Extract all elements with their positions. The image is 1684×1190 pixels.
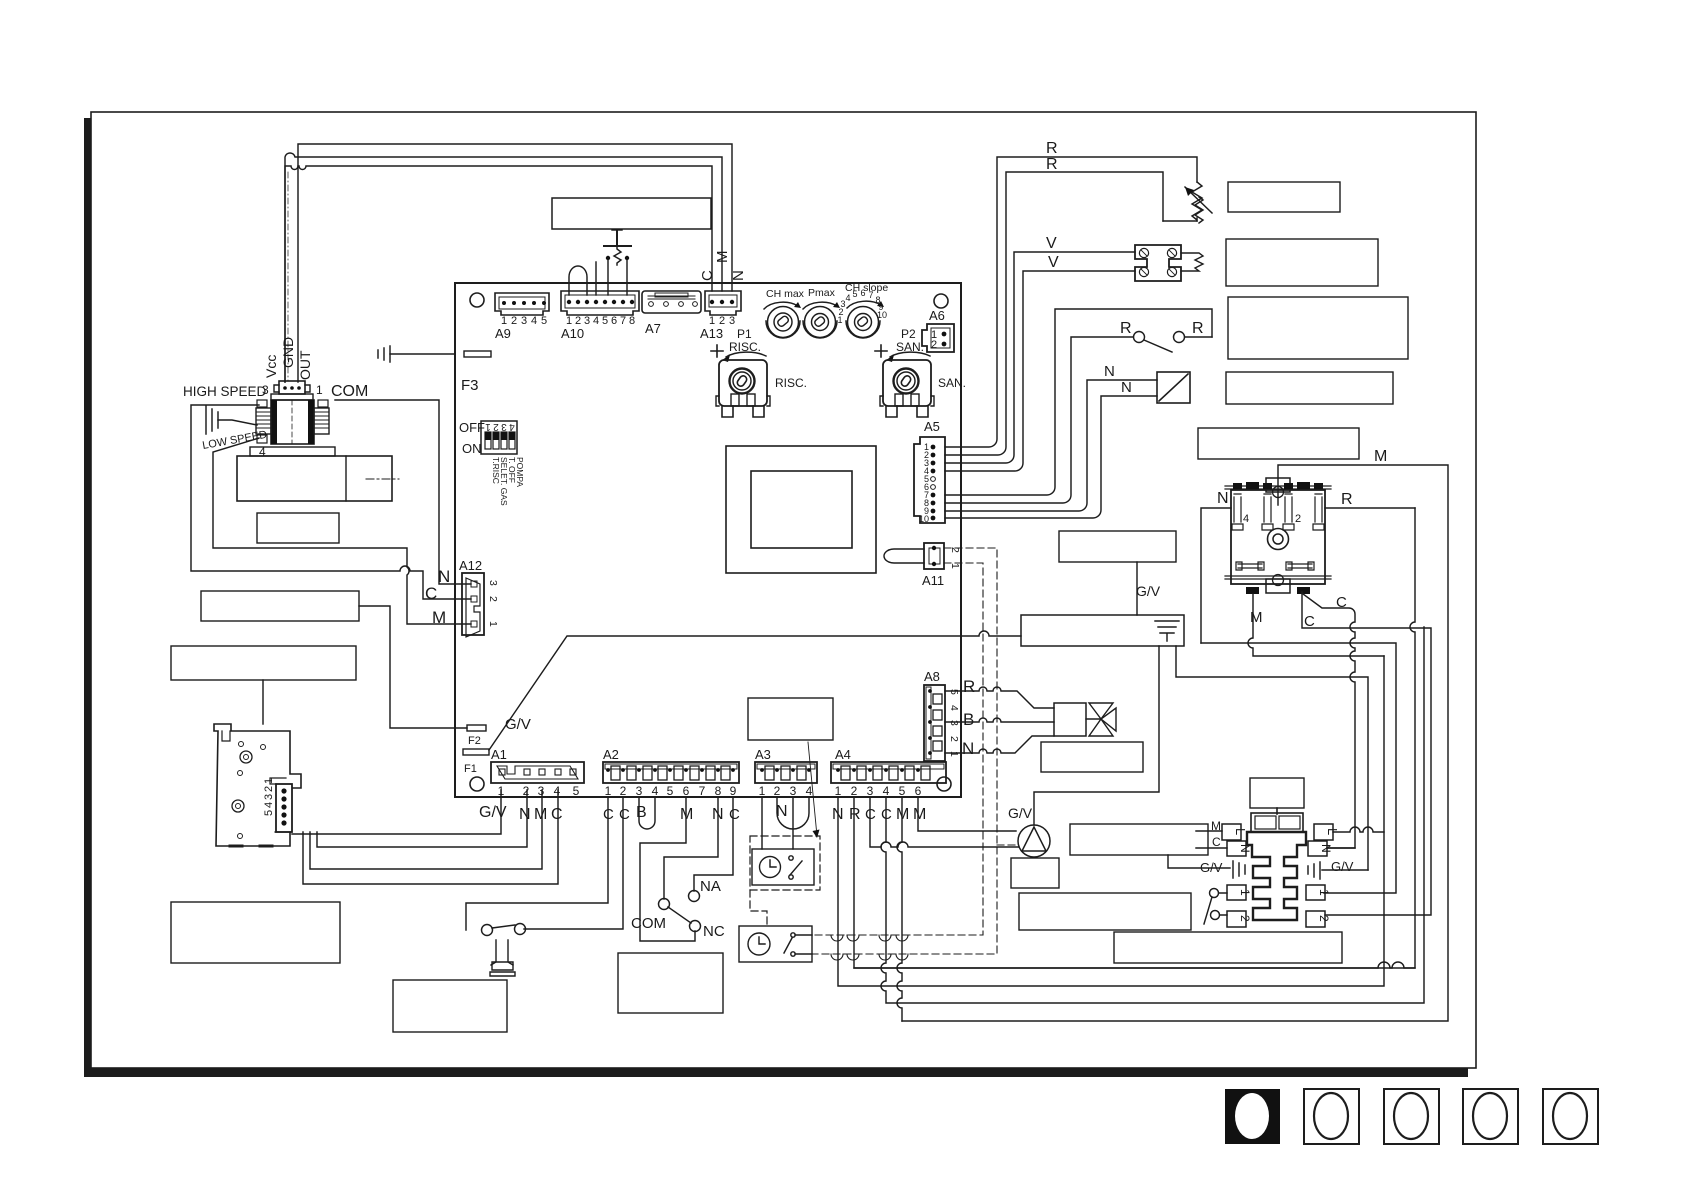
svg-text:4: 4 bbox=[883, 784, 890, 798]
svg-text:2: 2 bbox=[523, 784, 530, 798]
svg-text:4: 4 bbox=[652, 784, 659, 798]
svg-text:C: C bbox=[1212, 835, 1221, 849]
wire right N to C1 riser bbox=[1327, 847, 1355, 849]
label box above timers bbox=[748, 698, 833, 740]
switch COM NA NC bbox=[631, 878, 725, 940]
svg-text:A8: A8 bbox=[924, 669, 940, 684]
wire right L to riser bbox=[1333, 827, 1384, 832]
svg-text:C: C bbox=[619, 806, 630, 823]
svg-text:V: V bbox=[1048, 254, 1059, 271]
svg-text:4: 4 bbox=[259, 445, 266, 459]
PCB board outline bbox=[455, 283, 961, 797]
page shadow left bar bbox=[84, 118, 91, 1077]
svg-text:6: 6 bbox=[915, 784, 922, 798]
connector A12 bbox=[459, 558, 499, 637]
svg-text:3: 3 bbox=[538, 784, 545, 798]
label box under valve motor bbox=[1041, 742, 1143, 772]
wire from F1 diagonal to long run right bbox=[489, 631, 1021, 750]
svg-text:5: 5 bbox=[667, 784, 674, 798]
svg-text:P2: P2 bbox=[901, 327, 916, 341]
PCB screw hole bottom-left bbox=[470, 777, 484, 791]
svg-text:2: 2 bbox=[851, 784, 858, 798]
svg-text:1: 1 bbox=[1317, 889, 1331, 896]
gas valve 5-pin connector bbox=[263, 778, 292, 832]
fan motor body bbox=[271, 172, 314, 444]
wire C from A13 pin1 up and left to fan bbox=[285, 166, 712, 382]
label box bottom-left bbox=[171, 902, 340, 963]
wire N from A12 pin3 to fan COM bbox=[335, 400, 471, 584]
connector A7 bbox=[642, 291, 701, 313]
2 box left bbox=[1227, 911, 1252, 927]
connector A3 bbox=[755, 747, 817, 798]
svg-text:C: C bbox=[1304, 613, 1315, 630]
svg-text:2: 2 bbox=[1295, 513, 1301, 525]
svg-text:2: 2 bbox=[620, 784, 627, 798]
A5 pin2 wire (R) bbox=[945, 172, 1163, 455]
A5 pin7 wire to thermostat R-R bbox=[945, 309, 1212, 495]
N box right bbox=[1308, 841, 1333, 856]
L box right bbox=[1314, 824, 1340, 840]
svg-text:1: 1 bbox=[759, 784, 766, 798]
svg-text:3: 3 bbox=[790, 784, 797, 798]
timer 2 (clock + switch) bbox=[739, 926, 812, 962]
svg-text:5: 5 bbox=[602, 315, 608, 327]
wire gas valve to A1 pin2 bbox=[317, 790, 527, 847]
A5 pin10 wire to relay (N) bbox=[945, 396, 1157, 518]
wire N from A13 pin3 up and left to fan bbox=[298, 144, 732, 382]
svg-text:N: N bbox=[1121, 379, 1132, 396]
svg-text:2: 2 bbox=[931, 339, 937, 351]
left ground G/V bbox=[1168, 855, 1245, 878]
svg-text:NA: NA bbox=[700, 878, 721, 895]
wire control box to right ground bbox=[1176, 646, 1368, 870]
svg-text:2: 2 bbox=[487, 596, 499, 602]
potentiometer CH slope with scale bbox=[837, 282, 888, 338]
svg-text:3: 3 bbox=[729, 315, 735, 327]
wire A4 pin3 C to pump bbox=[870, 797, 1019, 847]
svg-text:M: M bbox=[534, 806, 547, 823]
fuse F2 bbox=[467, 725, 486, 731]
1 box right bbox=[1306, 885, 1331, 900]
svg-text:5: 5 bbox=[948, 689, 960, 695]
wire A4 pin2 R to bottom run bbox=[854, 508, 1415, 968]
svg-text:4: 4 bbox=[948, 705, 960, 711]
svg-text:4: 4 bbox=[531, 315, 537, 327]
svg-text:A10: A10 bbox=[561, 326, 584, 341]
wire A3 pin1 into timer1 bbox=[761, 797, 763, 849]
wire M from A13 pin2 up and left to fan bbox=[285, 153, 722, 382]
flow switch contacts bbox=[482, 924, 526, 936]
svg-text:N: N bbox=[1104, 363, 1115, 380]
resistor at V block bbox=[1181, 253, 1203, 271]
svg-text:4: 4 bbox=[263, 802, 275, 808]
svg-text:R: R bbox=[1341, 491, 1353, 508]
bottom long wire to A4 pin4 riser bbox=[854, 962, 1415, 968]
svg-text:A4: A4 bbox=[835, 747, 851, 762]
svg-text:Pmax: Pmax bbox=[808, 287, 836, 299]
label box top center bbox=[552, 198, 711, 229]
A5 pin8 wire to thermostat bbox=[945, 337, 1133, 503]
svg-text:NC: NC bbox=[703, 923, 725, 940]
svg-text:2: 2 bbox=[1317, 915, 1331, 922]
page frame bbox=[91, 112, 1476, 1068]
svg-text:R: R bbox=[1120, 320, 1132, 337]
A8 wire B to valve motor bbox=[945, 718, 1054, 722]
svg-text:COM: COM bbox=[331, 383, 368, 400]
transformer bbox=[726, 446, 876, 573]
wire C from A12 pin2 via HIGH SPEED run bbox=[191, 405, 471, 599]
fan sensor connector bbox=[271, 381, 313, 400]
dashed wires from A11 to timer2 bbox=[812, 548, 1019, 954]
svg-text:2: 2 bbox=[1238, 915, 1252, 922]
label box left of A12 bbox=[201, 591, 359, 621]
svg-text:A9: A9 bbox=[495, 326, 511, 341]
control box with ground bbox=[1021, 615, 1184, 646]
svg-text:2: 2 bbox=[263, 786, 275, 792]
lamp and connector A11 bbox=[884, 543, 961, 588]
leader line from label box to timer1 bbox=[808, 742, 817, 836]
page marker 4 bbox=[1463, 1089, 1518, 1144]
svg-text:R: R bbox=[963, 677, 975, 696]
svg-text:A7: A7 bbox=[645, 321, 661, 336]
svg-text:N: N bbox=[1238, 844, 1252, 853]
svg-text:5: 5 bbox=[899, 784, 906, 798]
label box upper-left of gas valve bbox=[171, 646, 356, 680]
svg-text:4: 4 bbox=[806, 784, 813, 798]
wire from label box to F2 bbox=[359, 606, 467, 728]
wire M from A12 pin1 via LOW SPEED run bbox=[213, 438, 471, 624]
svg-text:A6: A6 bbox=[929, 308, 945, 323]
label box 4 (relay) bbox=[1226, 372, 1393, 404]
svg-text:3: 3 bbox=[948, 720, 960, 726]
svg-text:1: 1 bbox=[485, 421, 491, 432]
svg-text:F1: F1 bbox=[464, 763, 477, 775]
svg-text:4: 4 bbox=[845, 293, 850, 303]
svg-text:6: 6 bbox=[611, 315, 617, 327]
fan base plate with 4 bbox=[250, 447, 335, 456]
jumper loop A3 pins 2-4 bbox=[777, 797, 809, 829]
jumper loop A2 pins 3-4 bbox=[639, 797, 655, 829]
svg-text:G/V: G/V bbox=[1331, 859, 1354, 874]
svg-text:N: N bbox=[438, 567, 450, 586]
fuse F3 bbox=[378, 346, 491, 394]
connector A13 bbox=[705, 291, 741, 315]
svg-text:N: N bbox=[730, 270, 747, 281]
svg-text:C: C bbox=[551, 806, 563, 823]
wire A2 pin2 to flow switch bbox=[524, 797, 623, 929]
svg-text:3: 3 bbox=[521, 315, 527, 327]
label box 2 (V block) bbox=[1226, 239, 1378, 286]
svg-text:G/V: G/V bbox=[1136, 583, 1161, 599]
pressure sensor symbol below flow switch bbox=[490, 940, 515, 976]
svg-text:3: 3 bbox=[501, 421, 507, 432]
pump unit (hydraulic block) right side bbox=[1225, 478, 1331, 594]
svg-text:5: 5 bbox=[541, 315, 547, 327]
wire A3 pin3 into timer1 bbox=[792, 797, 794, 849]
svg-text:1: 1 bbox=[1238, 889, 1252, 896]
svg-text:5: 5 bbox=[852, 289, 857, 299]
connector A1 bbox=[491, 747, 584, 798]
label box 5 bbox=[1198, 428, 1359, 459]
svg-text:HIGH SPEED: HIGH SPEED bbox=[183, 384, 267, 399]
svg-text:3: 3 bbox=[867, 784, 874, 798]
svg-text:B: B bbox=[636, 804, 647, 821]
svg-text:P1: P1 bbox=[737, 327, 752, 341]
svg-text:OUT: OUT bbox=[297, 350, 313, 380]
svg-text:R: R bbox=[1046, 140, 1058, 157]
svg-text:N: N bbox=[1217, 490, 1229, 507]
svg-text:7: 7 bbox=[868, 290, 873, 300]
wire A4 pin6 M to pump bottom run bbox=[918, 797, 1016, 831]
C wire from pump bottom center bbox=[1302, 592, 1431, 915]
svg-text:COM: COM bbox=[631, 915, 666, 932]
svg-text:1: 1 bbox=[948, 751, 960, 757]
ground symbol at fan bbox=[206, 406, 257, 434]
page marker 2 bbox=[1304, 1089, 1359, 1144]
svg-text:A3: A3 bbox=[755, 747, 771, 762]
valve fan symbol bbox=[1086, 703, 1116, 736]
svg-text:R: R bbox=[1046, 156, 1058, 173]
svg-text:3: 3 bbox=[487, 580, 499, 586]
svg-text:9: 9 bbox=[730, 784, 737, 798]
svg-text:6: 6 bbox=[860, 288, 865, 298]
svg-text:C: C bbox=[425, 584, 437, 603]
fuse F1 bbox=[463, 749, 489, 755]
svg-text:10: 10 bbox=[919, 514, 929, 524]
svg-text:L: L bbox=[1233, 828, 1248, 835]
svg-text:A1: A1 bbox=[491, 747, 507, 762]
potentiometer Pmax bbox=[803, 287, 840, 338]
wire A2 pin6 to NC contact bbox=[640, 797, 695, 941]
terminal board top label box bbox=[1250, 778, 1304, 808]
spark electrode with resistor above A10 bbox=[596, 230, 631, 295]
wire A4 pin5 M to long run bbox=[897, 797, 902, 1021]
connector A10 bbox=[561, 291, 639, 315]
label box below pump bbox=[1011, 858, 1059, 888]
A8 wire N to valve motor bbox=[945, 736, 1054, 753]
wire A4 pin4 C to long riser bbox=[881, 627, 1424, 1003]
pump circle with triangle bbox=[1018, 825, 1050, 857]
page marker 3 bbox=[1384, 1089, 1439, 1144]
potentiometer CH max bbox=[764, 288, 805, 338]
label box center-bottom bbox=[393, 980, 507, 1032]
A5 pin3 wire (V) bbox=[945, 252, 1135, 463]
DIP switch block bbox=[459, 420, 525, 506]
connector A8 bbox=[924, 669, 960, 761]
N wire pump left lower run to 1-terminal bbox=[1201, 643, 1396, 893]
A5 pin9 wire to relay (N) bbox=[945, 380, 1157, 511]
wire gas valve pin1 to A1 pin1 (G/V) bbox=[292, 790, 501, 834]
svg-text:V: V bbox=[1046, 235, 1057, 252]
terminal board top block bbox=[1251, 808, 1303, 832]
svg-text:3: 3 bbox=[636, 784, 643, 798]
svg-text:4: 4 bbox=[509, 421, 515, 432]
wire from label box down to gas valve bbox=[262, 680, 264, 724]
label box under COM switch bbox=[618, 953, 723, 1013]
svg-text:3: 3 bbox=[262, 383, 269, 397]
svg-text:M: M bbox=[1374, 448, 1387, 465]
svg-text:2: 2 bbox=[774, 784, 781, 798]
svg-text:M: M bbox=[913, 806, 926, 823]
A5 pin4 wire (V) bbox=[945, 271, 1135, 471]
svg-text:1: 1 bbox=[949, 563, 961, 569]
svg-text:A12: A12 bbox=[459, 558, 482, 573]
svg-text:4: 4 bbox=[554, 784, 561, 798]
N box left bbox=[1227, 841, 1252, 856]
svg-text:R: R bbox=[1192, 320, 1204, 337]
svg-text:5: 5 bbox=[573, 784, 580, 798]
svg-text:B: B bbox=[963, 710, 974, 729]
R wire pump right bbox=[1325, 507, 1415, 509]
A5 pin1 wire to NTC sensor (R) bbox=[945, 157, 1197, 447]
svg-text:4: 4 bbox=[1243, 513, 1249, 525]
relay / igniter box with diagonal bbox=[1157, 372, 1190, 403]
svg-text:G/V: G/V bbox=[505, 716, 531, 733]
svg-text:10: 10 bbox=[877, 310, 887, 320]
svg-text:SAN.: SAN. bbox=[938, 376, 966, 390]
jumper loop on A10 pins 1-2 bbox=[569, 266, 587, 295]
svg-text:C: C bbox=[699, 270, 716, 281]
N wire pump left bbox=[1201, 508, 1231, 643]
svg-text:N: N bbox=[962, 739, 974, 758]
connector A4 bbox=[831, 747, 946, 798]
svg-text:A5: A5 bbox=[924, 419, 940, 434]
connector A6 bbox=[922, 308, 954, 352]
M wire from pump bottom left tab bbox=[1248, 594, 1384, 656]
L box left bbox=[1222, 824, 1248, 840]
svg-text:1: 1 bbox=[316, 383, 323, 397]
svg-text:T.RISC: T.RISC bbox=[491, 457, 501, 484]
PCB screw hole top-left bbox=[470, 293, 484, 307]
PCB screw hole bottom-right bbox=[937, 777, 951, 791]
svg-text:A13: A13 bbox=[700, 326, 723, 341]
svg-text:1: 1 bbox=[487, 621, 499, 627]
dashed break marks bbox=[831, 935, 843, 941]
svg-text:8: 8 bbox=[629, 315, 635, 327]
svg-text:A11: A11 bbox=[922, 573, 944, 588]
svg-text:2: 2 bbox=[948, 736, 960, 742]
gas valve body bbox=[214, 724, 301, 846]
svg-text:1: 1 bbox=[835, 784, 842, 798]
thermostat switch R - R bbox=[1120, 320, 1212, 352]
timer 1 dashed enclosure bbox=[750, 836, 820, 890]
svg-text:3: 3 bbox=[584, 315, 590, 327]
svg-text:F3: F3 bbox=[461, 377, 479, 394]
svg-text:1: 1 bbox=[263, 778, 275, 784]
svg-text:ON: ON bbox=[462, 441, 482, 456]
bottom label box bbox=[1114, 932, 1342, 963]
label box 3 (thermostat) bbox=[1228, 297, 1408, 359]
svg-text:7: 7 bbox=[620, 315, 626, 327]
svg-text:5: 5 bbox=[263, 810, 275, 816]
V terminal block with screws bbox=[1135, 245, 1181, 281]
svg-text:F2: F2 bbox=[468, 735, 481, 747]
svg-text:8: 8 bbox=[715, 784, 722, 798]
page marker 1 active bbox=[1225, 1089, 1280, 1144]
svg-text:1: 1 bbox=[498, 784, 505, 798]
svg-text:M: M bbox=[1211, 819, 1221, 833]
label box above control box bbox=[1059, 531, 1176, 562]
wide label box bottom-left area bbox=[1019, 893, 1191, 930]
label box 1 (NTC) bbox=[1228, 182, 1340, 212]
motorized 3-way valve box bbox=[1054, 703, 1086, 736]
wire A2 pin9 to NA contact bbox=[694, 797, 733, 891]
connector A2 bbox=[603, 747, 739, 798]
wire A2 pin8 to COM contact bbox=[664, 797, 718, 899]
svg-text:2: 2 bbox=[493, 421, 499, 432]
svg-text:Vcc: Vcc bbox=[263, 355, 279, 378]
timer 1 (clock + switch) bbox=[752, 849, 814, 885]
PCB screw hole top-right bbox=[934, 294, 948, 308]
trimmer P2 SAN bbox=[875, 327, 966, 417]
connector A5 bbox=[914, 419, 945, 524]
wire A2 pin1 to flow switch bbox=[466, 797, 608, 930]
wire A4 pin1 N to bottom run bbox=[838, 656, 1384, 986]
wire from small box down to control box bbox=[1136, 562, 1138, 615]
switch at 1-2 left bbox=[1204, 889, 1227, 925]
right ground G/V bbox=[1308, 859, 1368, 879]
M C wires from wide box to L N bbox=[1196, 831, 1227, 848]
NTC variable resistor bbox=[1163, 182, 1212, 223]
svg-text:CH max: CH max bbox=[766, 288, 805, 300]
svg-text:RISC.: RISC. bbox=[775, 376, 807, 390]
wire control box to pump (G/V) bbox=[1034, 646, 1159, 825]
svg-text:C: C bbox=[729, 806, 740, 823]
svg-text:C: C bbox=[1336, 594, 1347, 611]
svg-text:4: 4 bbox=[593, 315, 599, 327]
svg-text:2: 2 bbox=[511, 315, 517, 327]
svg-text:R: R bbox=[849, 806, 861, 823]
page shadow bottom bar bbox=[84, 1068, 1468, 1077]
fan large body box bbox=[237, 456, 392, 501]
svg-text:M: M bbox=[1250, 609, 1263, 626]
wide label box right of pump bbox=[1070, 824, 1208, 855]
svg-text:A2: A2 bbox=[603, 747, 619, 762]
label box below fan bbox=[257, 513, 339, 543]
A8 wire R to valve motor bbox=[945, 687, 1054, 708]
C wire from pump bottom right tab bbox=[1303, 594, 1355, 848]
svg-text:G/V: G/V bbox=[479, 804, 507, 821]
wire gas valve to A1 pin3 bbox=[310, 790, 542, 869]
terminal comb strip bbox=[1247, 832, 1306, 920]
M wire from pump top to far right bbox=[902, 465, 1448, 1021]
svg-text:6: 6 bbox=[683, 784, 690, 798]
svg-text:3: 3 bbox=[263, 794, 275, 800]
fan coil hatched right bbox=[314, 400, 329, 434]
trimmer P1 RISC bbox=[711, 327, 807, 417]
wire gas valve to A1 pin4 bbox=[303, 790, 558, 884]
svg-text:N: N bbox=[519, 806, 531, 823]
svg-text:G/V: G/V bbox=[1008, 805, 1033, 821]
page marker 5 bbox=[1543, 1089, 1598, 1144]
connector A9 bbox=[495, 293, 549, 315]
dashed link to timer 2 bbox=[750, 890, 767, 928]
2 box right bbox=[1306, 911, 1331, 927]
svg-text:M: M bbox=[714, 251, 731, 264]
svg-text:7: 7 bbox=[699, 784, 706, 798]
svg-text:1: 1 bbox=[605, 784, 612, 798]
fan coil hatched left bbox=[256, 400, 271, 443]
1 box left bbox=[1227, 885, 1252, 900]
